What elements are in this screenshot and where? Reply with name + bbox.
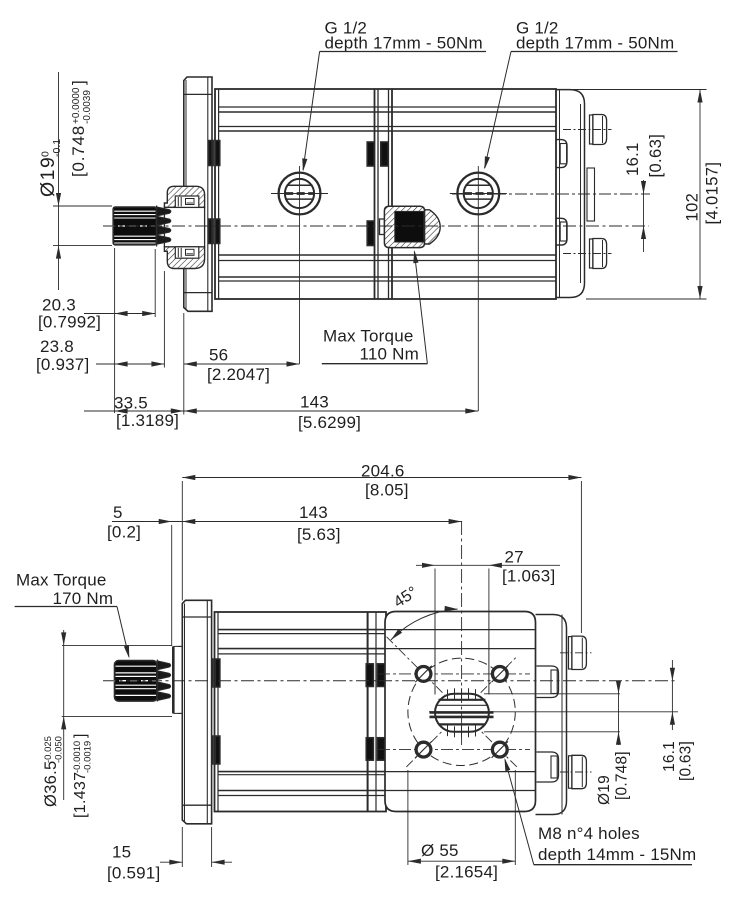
ext cover right edge: [580, 481, 582, 633]
cover bolt lower (bottom view): [569, 756, 572, 788]
dim dia 19 (rear): [484, 693, 620, 695]
cover bolt upper (top view): [590, 115, 593, 144]
svg-text:Max Torque: Max Torque: [16, 571, 107, 590]
section separator lines (body1 / center plate / body2): [374, 89, 376, 299]
svg-text:16.1: 16.1: [661, 741, 678, 772]
svg-text:16.1: 16.1: [624, 142, 642, 176]
dim 45 deg arc: [391, 609, 458, 640]
band line y629.6: [218, 629, 536, 631]
body band line y107: [219, 106, 556, 108]
svg-text:102: 102: [684, 193, 702, 222]
svg-text:]: ]: [72, 734, 89, 738]
ext oval left: [434, 569, 436, 612]
svg-text:[0.7992]: [0.7992]: [38, 313, 101, 332]
svg-text:56: 56: [209, 346, 228, 365]
svg-text:[1.437: [1.437: [72, 772, 89, 818]
band line y771.6: [218, 771, 536, 773]
relief valve plug dome tip: [425, 210, 441, 244]
svg-text:[4.0157]: [4.0157]: [704, 162, 722, 225]
svg-text:Ø36.5: Ø36.5: [42, 761, 60, 807]
leader arrow port #2: [482, 156, 490, 170]
svg-text:-0.0019: -0.0019: [83, 741, 94, 773]
svg-text:110 Nm: 110 Nm: [360, 345, 419, 364]
spline teeth (bottom view): [157, 661, 170, 670]
relief valve plug body: [380, 219, 385, 235]
body band line y255: [219, 254, 556, 256]
face center horizontal line: [429, 711, 678, 713]
body band line y131: [219, 130, 556, 132]
svg-text:]: ]: [69, 80, 88, 85]
svg-text:Ø19: Ø19: [37, 156, 59, 197]
ext line seal housing: [163, 271, 165, 368]
rear cover (top view): [556, 90, 585, 298]
body front joint line: [218, 89, 220, 299]
bearing box top: [175, 196, 199, 207]
svg-text:[2.2047]: [2.2047]: [207, 365, 270, 384]
flange top step line (bottom): [182, 616, 211, 618]
svg-text:depth 14mm - 15Nm: depth 14mm - 15Nm: [538, 845, 696, 864]
shaft centerline white dash: [107, 225, 155, 227]
band line y795.5: [218, 795, 536, 797]
svg-text:M8 n°4 holes: M8 n°4 holes: [538, 824, 640, 843]
pump centerline (bottom view): [103, 680, 678, 682]
band line y648.6: [218, 648, 536, 650]
port #2 vertical centerline / extension to 143 dim: [477, 166, 479, 411]
shaft seal housing hatched cap top: [164, 186, 204, 207]
svg-text:-0.0010: -0.0010: [72, 741, 83, 773]
relief valve plug black core: [395, 211, 424, 242]
leader arrow port #1: [300, 158, 307, 172]
bolt circle dia 55 (dashed): [408, 658, 515, 765]
rear cover (bottom view): [536, 615, 567, 815]
leader to hole: [505, 760, 534, 865]
port row centerline extension right (16.1 dim): [452, 193, 650, 195]
svg-text:[5.6299]: [5.6299]: [298, 413, 361, 432]
port G1/2 #1: [279, 173, 321, 215]
rear cover hidden joint: [587, 168, 595, 221]
svg-text:[0.937]: [0.937]: [36, 355, 89, 374]
bearing box bottom: [175, 247, 199, 258]
ext line flange face: [183, 313, 185, 415]
shaft centerline white (bottom): [108, 680, 156, 682]
separator lines (bottom view): [367, 612, 369, 812]
svg-text:-0.0039: -0.0039: [82, 90, 93, 124]
svg-text:depth 17mm - 50Nm: depth 17mm - 50Nm: [516, 34, 674, 53]
leader to port #2: [485, 52, 512, 169]
flange bottom step line: [184, 292, 212, 294]
svg-text:0: 0: [40, 151, 52, 157]
band line y774.7: [218, 774, 536, 776]
svg-text:[8.05]: [8.05]: [365, 481, 409, 500]
leader arrow shaft: [124, 645, 132, 659]
side boss upper (top view): [557, 140, 568, 168]
spline teeth: [157, 207, 171, 216]
body band line y277: [219, 276, 556, 278]
leader arrow plug: [412, 250, 419, 264]
cover boss lower (bottom view): [537, 752, 559, 782]
separator seal tabs: [367, 142, 374, 166]
spline root line: [156, 206, 158, 247]
band line y790.5: [218, 790, 536, 792]
svg-text:Ø19: Ø19: [596, 775, 613, 805]
svg-text:depth 17mm - 50Nm: depth 17mm - 50Nm: [325, 34, 483, 53]
svg-text:-0.1: -0.1: [51, 139, 63, 157]
center splined shaft end (stadium): [435, 694, 489, 732]
svg-text:[0.748: [0.748: [69, 125, 88, 177]
body band line y260.5: [219, 260, 556, 262]
svg-text:+0.0000: +0.0000: [71, 87, 82, 124]
svg-text:[0.591]: [0.591]: [107, 864, 160, 883]
svg-text:170 Nm: 170 Nm: [53, 589, 114, 608]
pump body (bottom view) outline: [215, 612, 387, 812]
svg-text:-0.050: -0.050: [54, 736, 65, 763]
mounting flange (bottom view): [182, 600, 211, 824]
svg-text:143: 143: [299, 503, 328, 522]
splined drive shaft (top view): [113, 207, 156, 245]
flange bottom step line (bottom): [182, 804, 211, 806]
cover bolt upper (bottom view): [569, 637, 572, 669]
svg-text:[5.63]: [5.63]: [297, 525, 341, 544]
svg-text:5: 5: [113, 503, 123, 522]
svg-text:[0.2]: [0.2]: [107, 523, 141, 542]
side boss lower (top view): [557, 218, 568, 245]
svg-text:[1.3189]: [1.3189]: [116, 411, 179, 430]
flange joint seal tabs: [209, 141, 214, 166]
leader to port #1: [303, 52, 320, 171]
port #1 vertical centerline / extension to 56 dim: [299, 166, 301, 364]
M8 holes x4: [416, 667, 431, 682]
band line y653.9: [218, 653, 536, 655]
svg-text:[0.748]: [0.748]: [614, 751, 631, 800]
dim dia 36.5: [62, 644, 172, 646]
leader to plug: [414, 252, 427, 364]
svg-text:-0.025: -0.025: [43, 736, 54, 763]
port G1/2 #2: [457, 173, 499, 215]
dim diameter 19 shaft: [53, 205, 112, 207]
45 deg diagonal centerlines: [387, 637, 517, 767]
flange left inner line (bottom): [184, 604, 186, 822]
svg-text:33.5: 33.5: [114, 394, 148, 413]
svg-text:[0.63]: [0.63]: [647, 134, 665, 178]
rear cover inner profile line: [580, 104, 582, 283]
svg-text:23.8: 23.8: [40, 337, 74, 356]
flange inner line (bottom): [206, 600, 208, 824]
ext flange face up: [181, 481, 183, 601]
body joint line: [217, 612, 219, 812]
dim 102 right: [560, 89, 707, 91]
seal housing bore (white): [164, 207, 204, 246]
pilot boss edge (dia 36.5): [172, 646, 175, 713]
pump centerline (top view): [103, 225, 649, 227]
leader to shaft: [117, 607, 129, 657]
flange joint seal tabs (bottom view): [208, 659, 213, 687]
splined drive shaft (bottom view): [115, 661, 158, 702]
svg-text:143: 143: [300, 393, 329, 412]
band line y633.6: [218, 633, 536, 635]
rear mounting face plate: [385, 612, 536, 812]
svg-text:Ø 55: Ø 55: [421, 841, 459, 860]
flange left inner line: [185, 80, 187, 309]
separator seal tabs (bottom view): [366, 664, 373, 687]
ext oval right: [488, 569, 490, 612]
body band line y281: [219, 280, 556, 282]
svg-text:27: 27: [505, 548, 524, 567]
face center vertical line: [461, 521, 463, 745]
hole row centerlines: [378, 673, 530, 675]
mounting flange (top view): [184, 77, 212, 311]
svg-text:[2.1654]: [2.1654]: [435, 863, 498, 882]
ext line spline start: [154, 249, 156, 317]
dim 16.1 (rear): [671, 660, 673, 730]
flange top step line: [184, 93, 212, 95]
svg-text:Max Torque: Max Torque: [323, 327, 414, 346]
leader arrow hole: [502, 757, 510, 771]
svg-text:[1.063]: [1.063]: [502, 567, 555, 586]
port boss vertical edges on face: [434, 612, 436, 695]
svg-text:[0.63]: [0.63]: [678, 741, 695, 781]
svg-text:15: 15: [112, 843, 131, 862]
ext pilot boss face: [171, 525, 173, 646]
cover boss upper (bottom view): [537, 666, 559, 698]
rear cover joint line: [559, 90, 561, 298]
body band line y112: [219, 111, 556, 113]
shaft seal housing hatched cap bottom: [164, 247, 204, 269]
dim 16.1 right: [643, 180, 645, 252]
ext line shaft end: [114, 248, 116, 413]
cover bolt lower (top view): [590, 239, 593, 268]
spline ticks on stadium: [447, 689, 449, 700]
body band line y126.5: [219, 126, 556, 128]
flange inner line: [207, 77, 209, 311]
pump body (top view) outline: [215, 89, 556, 299]
cover inner line: [561, 615, 563, 815]
